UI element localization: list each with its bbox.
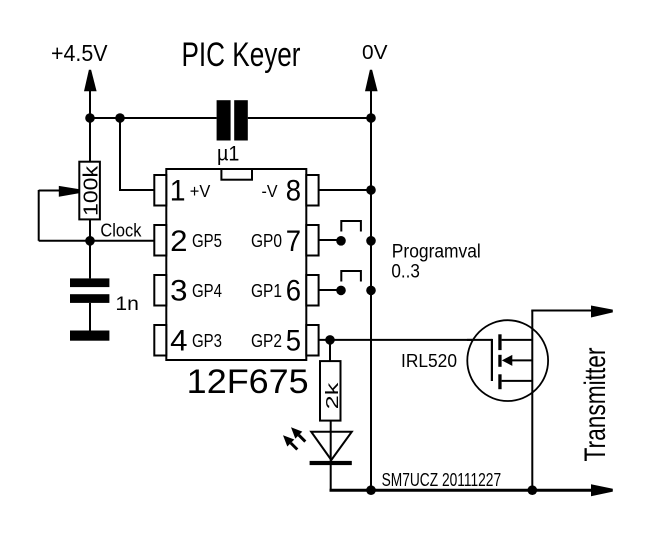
- wire +4.5V arrow to R1: [89, 89, 91, 162]
- capacitor C2 plate bottom: [70, 294, 109, 303]
- LED emission arrow lower: [283, 435, 294, 446]
- node junction dot pin5/R2: [325, 335, 335, 345]
- svg-text:4: 4: [170, 325, 187, 358]
- ground bar: [70, 331, 109, 341]
- node junction dot source/bottom rail: [528, 485, 538, 495]
- transistor Q1 IRL520 body circle: [467, 320, 548, 401]
- pin 5 box: [306, 325, 318, 356]
- svg-text:2: 2: [170, 225, 187, 258]
- Q1 substrate arrow wire: [512, 359, 533, 361]
- node junction dot +4.5V/pin1 branch: [115, 113, 125, 123]
- svg-text:0V: 0V: [362, 41, 388, 64]
- LED D1 triangle: [311, 432, 352, 460]
- pin 6 box: [306, 275, 318, 306]
- power arrow 0V: [365, 70, 378, 91]
- node junction dot +4.5V/R1: [85, 113, 95, 123]
- switch S1 actuator: [341, 221, 361, 232]
- Q1 drain connection: [502, 339, 533, 341]
- svg-text:6: 6: [286, 275, 301, 308]
- wire pin 5 / GP2 to gate: [319, 339, 492, 341]
- wire C2 to ground: [89, 303, 91, 331]
- wire junction to R2: [329, 340, 331, 361]
- node junction dot 0V/bottom rail: [366, 485, 376, 495]
- Q1 channel bar substrate: [498, 355, 501, 367]
- wire R1 bottom to C2: [89, 219, 91, 278]
- svg-text:IRL520: IRL520: [401, 350, 457, 371]
- svg-text:12F675: 12F675: [187, 363, 309, 401]
- svg-text:GP5: GP5: [192, 231, 222, 252]
- output arrow bottom: [591, 484, 613, 496]
- capacitor C1 plate right: [234, 100, 248, 140]
- svg-text:-V: -V: [262, 181, 278, 201]
- LED emission arrow upper: [291, 427, 302, 438]
- wire wiper down: [38, 190, 40, 241]
- svg-text:GP3: GP3: [192, 331, 222, 352]
- svg-text:5: 5: [286, 325, 301, 358]
- wire bottom rail: [330, 489, 593, 492]
- svg-text:SM7UCZ 20111227: SM7UCZ 20111227: [382, 469, 502, 490]
- wire +4.5V rail right segment (C1 to 0V rail): [248, 117, 371, 119]
- wire 0V rail vertical: [370, 88, 372, 490]
- switch S2 contact right: [366, 286, 376, 296]
- svg-text:GP0: GP0: [251, 231, 282, 252]
- svg-text:+V: +V: [190, 181, 211, 201]
- svg-text:Transmitter: Transmitter: [579, 347, 612, 461]
- wire R2 through LED: [330, 421, 332, 462]
- svg-text:1n: 1n: [115, 293, 138, 315]
- Q1 gate wire inside circle: [467, 339, 492, 341]
- node junction dot 0V rail top: [366, 113, 376, 123]
- potentiometer R1 100k body: [79, 162, 100, 220]
- capacitor C2 plate top: [70, 278, 109, 287]
- svg-text:+4.5V: +4.5V: [51, 40, 108, 66]
- resistor R2 2k body: [320, 361, 341, 421]
- pin 3 box: [154, 275, 166, 306]
- svg-text:GP1: GP1: [251, 281, 282, 302]
- pin 8 box: [306, 175, 318, 206]
- wire R1 wiper lead: [39, 190, 60, 192]
- svg-text:100k: 100k: [81, 165, 103, 216]
- Q1 channel bar drain: [498, 334, 501, 350]
- svg-text:2k: 2k: [322, 382, 342, 409]
- output arrow top: [591, 306, 613, 318]
- wire +4.5V rail left segment: [90, 117, 217, 119]
- IC notch mark: [221, 169, 252, 180]
- LED D1 cathode bar: [310, 461, 352, 465]
- wire drain/source vertical: [531, 311, 533, 491]
- wire clock net to pin 2: [39, 240, 155, 242]
- switch S2 contact left: [336, 286, 346, 296]
- capacitor C1 plate left: [217, 100, 231, 140]
- svg-text:Programval: Programval: [392, 241, 481, 263]
- Q1 channel bar source: [498, 374, 501, 389]
- Q1 substrate arrowhead: [502, 355, 513, 366]
- svg-text:0..3: 0..3: [391, 260, 420, 282]
- Q1 gate bar: [491, 339, 493, 381]
- node junction dot pin8/0V: [366, 185, 376, 195]
- pin 1 box: [154, 175, 166, 206]
- node junction dot clock: [85, 236, 95, 246]
- power arrow +4.5V: [84, 70, 97, 91]
- svg-text:1: 1: [170, 175, 186, 208]
- wire drain to output: [531, 310, 592, 312]
- pin 4 box: [154, 325, 166, 356]
- Q1 source connection: [502, 380, 533, 382]
- svg-text:3: 3: [170, 275, 187, 308]
- svg-text:GP4: GP4: [192, 281, 222, 302]
- wire branch down to pin 1: [120, 118, 155, 190]
- svg-text:GP2: GP2: [251, 331, 282, 352]
- wire LED to bottom rail: [330, 464, 332, 490]
- switch S1 contact right: [366, 236, 376, 246]
- svg-text:µ1: µ1: [217, 141, 239, 165]
- pin 2 box: [154, 225, 166, 256]
- svg-text:7: 7: [286, 225, 301, 258]
- switch S2 actuator: [341, 271, 361, 282]
- R1 wiper arrowhead: [59, 186, 80, 197]
- wire pin 7 to switch S1: [319, 239, 341, 241]
- switch S1 contact left: [336, 236, 346, 246]
- wire pin 8 to 0V rail: [319, 189, 371, 191]
- svg-text:Clock: Clock: [100, 221, 142, 241]
- wire pin 6 to switch S2: [319, 289, 341, 291]
- pin 7 box: [306, 225, 318, 256]
- svg-text:8: 8: [286, 174, 301, 207]
- svg-text:PIC Keyer: PIC Keyer: [182, 36, 301, 74]
- op IC U1 12F675 body: [166, 169, 306, 360]
